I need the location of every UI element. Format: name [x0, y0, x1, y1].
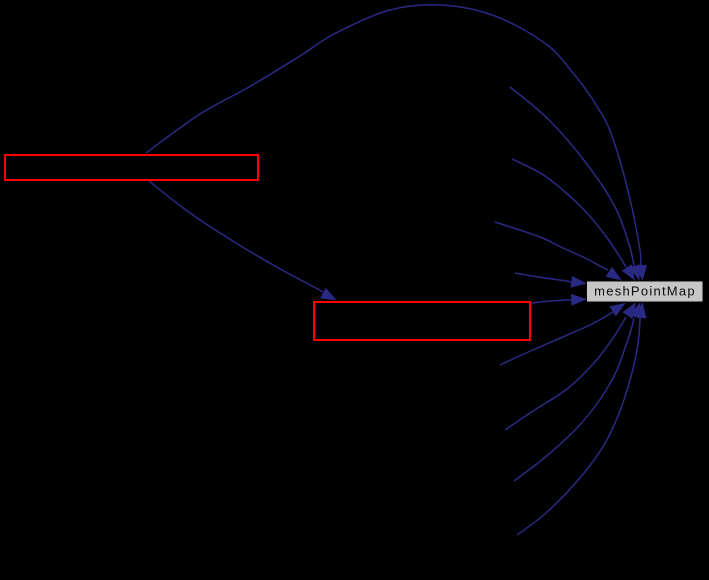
- svg-text:meshPointMap: meshPointMap: [594, 283, 696, 298]
- edge E0 box1->box2: [149, 181, 336, 300]
- edge E1 box1->meshPointMap (over the top): [146, 5, 647, 280]
- node: truncated caller box (red, middle): [314, 302, 530, 340]
- edge E7 hidden caller E->meshPointMap: [500, 303, 625, 365]
- edge E2 hidden caller A->meshPointMap: [510, 87, 641, 280]
- edge E6 box2->meshPointMap: [531, 294, 586, 305]
- node meshPointMap (current node, grey): [587, 281, 704, 302]
- edge E10 hidden caller H->meshPointMap: [517, 303, 646, 535]
- edge E4 hidden caller C->meshPointMap: [495, 222, 621, 280]
- edge E8 hidden caller F->meshPointMap: [505, 303, 636, 430]
- edge E5 hidden caller D->meshPointMap: [515, 273, 586, 287]
- edge E3 hidden caller B->meshPointMap: [512, 159, 635, 280]
- edge E9 hidden caller G->meshPointMap: [514, 303, 641, 481]
- node: truncated caller box (red, top-left): [5, 155, 258, 180]
